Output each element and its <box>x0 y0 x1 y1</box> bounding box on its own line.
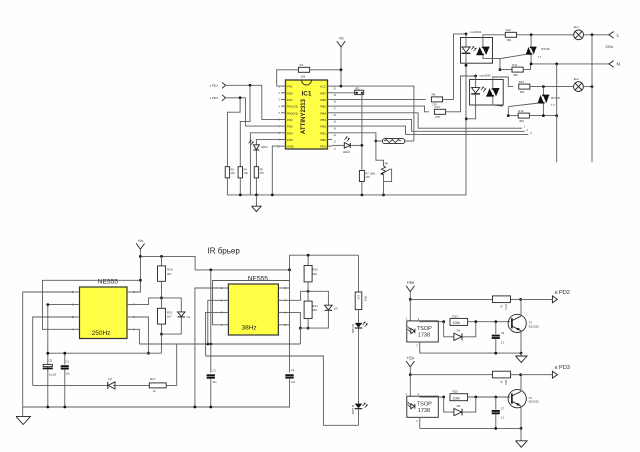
terminal k PD3 input <box>210 95 226 101</box>
svg-text:NE555: NE555 <box>98 278 118 285</box>
wire R to base <box>468 396 510 399</box>
wire emitter to ground <box>520 331 523 355</box>
svg-text:PD1: PD1 <box>287 98 293 102</box>
wire R17 to line <box>166 344 177 385</box>
svg-text:R25: R25 <box>452 390 458 394</box>
ground symbol top section <box>252 195 262 212</box>
wire opto1 pin6 to R12 <box>483 35 505 38</box>
potentiometer R6 <box>381 162 391 182</box>
wire branch to R4 <box>240 85 250 166</box>
lamp EL2 <box>574 77 584 92</box>
+5v column to pin 8 <box>132 249 142 292</box>
capacitor C1 <box>61 353 71 407</box>
resistor R23 100k <box>450 314 468 325</box>
diode D1 <box>162 298 191 334</box>
wire opto1 cathode to ground <box>465 54 468 195</box>
svg-text:1738: 1738 <box>418 408 430 414</box>
wire PB3 bus 2 <box>332 119 529 131</box>
svg-text:BT136: BT136 <box>542 47 551 51</box>
svg-text:220v: 220v <box>606 45 614 49</box>
svg-text:D3: D3 <box>334 306 338 310</box>
wire R15 leads <box>160 298 163 336</box>
svg-text:2N2222: 2N2222 <box>528 400 539 404</box>
frequency control line <box>139 343 300 346</box>
capacitor C4 <box>195 369 296 407</box>
svg-text:IR LED1: IR LED1 <box>351 324 354 334</box>
resistor R15 2k7 <box>158 308 173 324</box>
resistor R9 270 <box>431 93 442 107</box>
wire emitter to ground <box>520 406 523 430</box>
IR receiver TSOP1738 PD3 <box>406 392 439 423</box>
wire R3 R4 R5 to ground rail <box>227 178 256 195</box>
IR receiver TSOP1738 PD2 <box>406 317 439 348</box>
wire +5v to node <box>409 292 412 301</box>
resistor R18 100 <box>355 255 367 309</box>
svg-text:к PD3: к PD3 <box>555 365 570 371</box>
wire opto2 pin6 to R13 <box>493 77 513 87</box>
svg-text:LED2: LED2 <box>343 150 350 154</box>
triac T1 BT136 <box>526 35 550 64</box>
wire GND pin to rail <box>272 146 281 195</box>
svg-text:270: 270 <box>435 115 440 119</box>
svg-text:JP1: JP1 <box>355 86 360 90</box>
wire node to R7 <box>361 145 363 170</box>
svg-text:18: 18 <box>333 100 336 104</box>
svg-text:R6: R6 <box>385 162 389 166</box>
svg-text:360: 360 <box>519 119 524 123</box>
svg-text:PD5: PD5 <box>287 138 293 142</box>
svg-text:C5: C5 <box>49 359 53 363</box>
svg-text:D5: D5 <box>457 404 461 408</box>
wire IR LED2 to return <box>358 409 360 425</box>
IC1 right pin labels <box>320 85 327 149</box>
capacitor C5 1u/25 <box>43 359 57 407</box>
svg-text:100: 100 <box>356 295 360 300</box>
wire pin2 U5 <box>208 300 224 344</box>
wire pin6 U4 <box>132 317 150 355</box>
wire R to base <box>468 320 510 323</box>
resistor R4 10k <box>238 167 248 178</box>
wire node to TSOP pin1 <box>409 299 411 321</box>
svg-text:IR LED2: IR LED2 <box>351 405 354 415</box>
wire branch to R3 <box>227 98 240 167</box>
wire C3 node to +5v jog <box>210 270 212 344</box>
+5v supply PD2 <box>406 280 415 291</box>
wire pin3 U4 output <box>33 317 75 385</box>
wire collector to output node <box>519 373 522 391</box>
wire PA2 to R1 <box>277 70 299 86</box>
svg-text:10k: 10k <box>301 75 306 79</box>
svg-text:2N2222: 2N2222 <box>528 324 539 328</box>
svg-text:PB2: PB2 <box>320 125 326 129</box>
optocoupler U2 MOC3041 <box>461 30 501 63</box>
VCC column U5 <box>283 270 289 373</box>
wire pin1 U4 to ground <box>23 292 75 407</box>
svg-text:470: 470 <box>260 171 265 175</box>
svg-text:2k2: 2k2 <box>312 308 317 312</box>
wire T2 gate <box>493 103 539 117</box>
N line <box>530 63 609 66</box>
svg-text:R14: R14 <box>518 109 524 113</box>
+5v supply PD3 <box>406 356 415 367</box>
svg-text:360: 360 <box>513 73 518 77</box>
wire PB2 bus 3 <box>332 126 532 135</box>
LED IR LED2 <box>351 403 368 415</box>
wire PB5 to R10 <box>332 106 429 112</box>
wire pin5 U4 <box>132 329 139 344</box>
ground symbol bottom left <box>16 407 30 425</box>
wire sensor node to potentiometer <box>376 141 384 166</box>
TSOP pin2 ground rail <box>420 342 521 355</box>
ground symbol PD2 <box>516 353 528 362</box>
wire pin1 U5 to ground <box>195 288 224 407</box>
svg-text:PB6: PB6 <box>320 98 326 102</box>
svg-text:R1: R1 <box>300 63 304 67</box>
lamp EL1 <box>574 25 584 40</box>
svg-text:PD3: PD3 <box>287 125 293 129</box>
svg-text:12: 12 <box>333 140 336 144</box>
wire opto2 cathode join <box>466 94 475 119</box>
svg-text:R3: R3 <box>231 168 235 172</box>
wire R12 to lamp node <box>517 33 574 36</box>
photoresistor R2 <box>376 139 414 144</box>
wire R9 to opto MOC3041 anode <box>443 33 468 100</box>
resistor R5 470 <box>254 167 264 178</box>
ground rail top section <box>227 194 466 197</box>
wire PB6 to R9 <box>332 98 426 100</box>
wire T1 gate <box>499 54 527 71</box>
wire pin4 reset loop U4 <box>43 280 141 329</box>
wire pin7 U4 <box>132 298 162 305</box>
wire +5v to node <box>409 367 412 376</box>
resistor R1 10k <box>298 63 309 79</box>
jumper JP1 <box>332 86 364 94</box>
+5v supply bottom left <box>136 239 144 249</box>
svg-text:R24: R24 <box>504 304 508 310</box>
svg-text:D2: D2 <box>108 377 112 381</box>
svg-text:19: 19 <box>333 93 336 97</box>
triac T2 BT138 <box>538 87 560 116</box>
svg-text:PD4: PD4 <box>287 131 293 135</box>
resistor R24 1k <box>410 296 510 310</box>
wire LED1 to R5 <box>255 150 257 166</box>
svg-text:T 1: T 1 <box>538 55 542 59</box>
svg-text:PA1(X2): PA1(X2) <box>287 105 298 109</box>
wire R1 to +5v rail <box>310 68 343 71</box>
svg-text:NE555: NE555 <box>248 275 268 282</box>
wire terminal PD2 to pin PD2 <box>226 84 282 120</box>
svg-text:100k: 100k <box>453 321 461 325</box>
svg-text:38Hz: 38Hz <box>242 325 257 332</box>
wire TSOP pin3 base row <box>420 320 445 323</box>
IC U4 NE555 250Hz <box>72 278 135 338</box>
wire pin6 U5 <box>283 312 301 329</box>
svg-text:15: 15 <box>333 120 336 124</box>
mains vertical from L <box>591 35 593 163</box>
terminal k PD2 input <box>210 82 226 88</box>
svg-text:moc3041: moc3041 <box>470 30 482 34</box>
optocoupler U3 MOC3042 <box>470 74 504 106</box>
svg-text:к PD2: к PD2 <box>555 290 570 296</box>
output return line U5 <box>206 356 359 425</box>
svg-text:TSOP: TSOP <box>417 402 432 408</box>
svg-text:PD6: PD6 <box>320 145 326 149</box>
wire to terminal PD3 <box>511 374 553 376</box>
wire R10 to opto MOC3042 anode <box>446 75 477 112</box>
IC U5 NE555 38Hz <box>221 275 287 335</box>
wire potentiometer to rail <box>383 175 385 195</box>
wire TSOP pin3 base row <box>420 396 445 399</box>
wire PB4 bus 1 <box>332 113 526 129</box>
wire pin2 U4 to C5 <box>46 303 74 361</box>
LED IR LED1 <box>351 310 368 334</box>
svg-text:360: 360 <box>520 90 525 94</box>
wire pin4 U5 reset loop <box>213 281 290 325</box>
svg-text:EL2: EL2 <box>574 77 579 81</box>
svg-text:C1: C1 <box>66 359 70 363</box>
mains vertical from N <box>556 64 558 162</box>
svg-text:к PD3: к PD3 <box>210 96 219 100</box>
wire VCC to +5v <box>332 85 342 88</box>
svg-text:PD0: PD0 <box>287 91 293 95</box>
transistor T4 2N2222 <box>508 390 539 408</box>
capacitor C6 0.1 <box>492 322 505 353</box>
wire R13 to lamp EL2 node <box>530 85 574 88</box>
terminal PD3 <box>552 365 569 378</box>
resistor R25 100k <box>450 390 468 401</box>
svg-text:R26: R26 <box>504 380 508 386</box>
svg-text:PB3: PB3 <box>320 118 326 122</box>
resistor R3 10k <box>225 167 235 178</box>
svg-text:10n: 10n <box>66 372 71 375</box>
diode D2 <box>33 377 150 389</box>
LED LED1 <box>249 140 269 150</box>
svg-text:+5v: +5v <box>137 239 143 243</box>
svg-text:IC1: IC1 <box>302 91 312 98</box>
svg-text:PD2: PD2 <box>287 118 293 122</box>
svg-text:R18: R18 <box>364 296 368 302</box>
svg-text:17: 17 <box>333 106 336 110</box>
LED LED2 <box>343 137 350 154</box>
wire LED2 to node <box>350 144 363 147</box>
resistor R13 360 <box>519 80 530 94</box>
svg-text:PB7: PB7 <box>320 91 326 95</box>
svg-text:BT138: BT138 <box>551 96 560 100</box>
svg-text:0.1: 0.1 <box>501 417 505 420</box>
wire EL2 to mains vertical <box>583 85 593 88</box>
svg-text:0.1: 0.1 <box>501 341 505 344</box>
svg-text:N: N <box>617 62 621 68</box>
wire R16 to node <box>160 281 163 299</box>
IC1 pin stubs and numbers <box>277 84 337 150</box>
svg-text:16: 16 <box>333 113 336 117</box>
resistor R16 2k7 <box>158 256 173 281</box>
terminal PD2 <box>552 290 569 303</box>
diode D5 <box>444 397 476 416</box>
wire R15 bottom to timing node <box>161 334 163 353</box>
svg-text:100k: 100k <box>453 396 461 400</box>
wire to terminal PD2 <box>511 298 553 300</box>
+5v rail bottom <box>140 254 358 271</box>
svg-text:R13: R13 <box>519 80 525 84</box>
resistor R14 360 <box>508 109 529 123</box>
svg-text:PA2: PA2 <box>287 85 293 89</box>
svg-text:IR брьер: IR брьер <box>208 246 241 255</box>
resistor R22 2k2 <box>304 255 318 291</box>
wire VCC rail to photoresistor <box>341 86 414 141</box>
svg-text:250Hz: 250Hz <box>92 330 111 337</box>
wire R11 to T1 MT1 <box>523 64 530 70</box>
wire pin7 U5 <box>283 290 309 300</box>
svg-text:360: 360 <box>507 38 512 42</box>
bottom ground rail <box>23 406 290 409</box>
svg-text:D1: D1 <box>187 315 191 319</box>
ground symbol PD3 <box>516 428 528 447</box>
svg-text:ATTINY2313: ATTINY2313 <box>300 98 307 134</box>
wire R7 to rail <box>361 182 363 195</box>
svg-text:T 2: T 2 <box>551 103 555 107</box>
IC IC1 ATTINY2313 <box>286 80 328 149</box>
svg-text:R23: R23 <box>452 314 458 318</box>
wire PD5 to LED1 <box>256 139 281 144</box>
IC1 left pin labels <box>287 85 298 149</box>
svg-text:1u/25: 1u/25 <box>49 372 56 376</box>
svg-text:R9: R9 <box>432 93 436 97</box>
resistor R21 2k2 <box>304 291 318 329</box>
svg-text:470: 470 <box>365 175 370 179</box>
svg-text:L: L <box>617 33 620 39</box>
terminal L 220v <box>606 32 620 49</box>
capacitor C3 <box>207 344 217 407</box>
svg-text:R5: R5 <box>260 168 264 172</box>
wire PD4 to ground rail <box>250 133 281 195</box>
wire PB1 to sensor node <box>332 133 377 143</box>
wire terminal PD3 to pin PD3 <box>226 96 282 126</box>
wire IR LED1 to IR LED2 <box>358 328 360 403</box>
svg-text:10k: 10k <box>231 171 236 175</box>
svg-text:PB4: PB4 <box>320 111 326 115</box>
svg-text:R11: R11 <box>512 63 517 67</box>
wire JP1 to LED2 node <box>361 95 363 146</box>
svg-text:R4: R4 <box>244 168 248 172</box>
svg-text:2k7: 2k7 <box>167 272 172 276</box>
svg-text:EL1: EL1 <box>574 25 579 29</box>
svg-text:14: 14 <box>333 126 336 130</box>
svg-text:moc3042: moc3042 <box>479 74 491 78</box>
svg-text:20: 20 <box>333 86 336 90</box>
svg-text:R7 100k: R7 100k <box>365 172 375 176</box>
svg-text:TSOP: TSOP <box>417 326 432 332</box>
capacitor C7 0.1 <box>492 397 505 428</box>
svg-text:PB5: PB5 <box>320 105 326 109</box>
svg-text:2k7: 2k7 <box>167 315 172 319</box>
resistor R17 1k <box>149 377 166 393</box>
svg-text:13: 13 <box>333 133 336 137</box>
timing node wire U4 <box>46 352 161 355</box>
svg-text:10k: 10k <box>244 171 249 175</box>
diode D4 <box>444 322 476 341</box>
svg-text:D4: D4 <box>457 329 461 333</box>
wire node to TSOP pin1 <box>409 375 411 397</box>
svg-text:+5v: +5v <box>407 280 415 285</box>
transistor T3 2N2222 <box>508 314 539 332</box>
svg-text:R12: R12 <box>506 28 512 32</box>
TSOP pin2 ground rail <box>420 417 521 430</box>
svg-text:PB1: PB1 <box>320 131 326 135</box>
svg-text:10n: 10n <box>212 381 217 384</box>
svg-text:2k2: 2k2 <box>312 272 317 276</box>
wire collector to output node <box>519 298 522 316</box>
svg-text:PB0: PB0 <box>320 138 326 142</box>
svg-text:10n: 10n <box>291 381 296 384</box>
svg-text:R10: R10 <box>435 105 441 109</box>
resistor R26 1k <box>410 371 510 385</box>
terminal N <box>609 61 621 68</box>
svg-text:к PD2: к PD2 <box>210 84 219 88</box>
diode D3 <box>300 291 337 328</box>
svg-text:PA0(X1): PA0(X1) <box>287 111 298 115</box>
resistor R11 360 <box>500 63 523 77</box>
wire R14 to T2 MT1 and N line <box>529 114 558 117</box>
wire pin6 node to control line <box>299 328 301 344</box>
wire PD6 to LED2 <box>332 144 344 146</box>
wire EL1 to L terminal <box>584 33 610 36</box>
svg-text:GND: GND <box>287 145 295 149</box>
resistor R10 270 <box>434 105 445 119</box>
svg-text:LED1: LED1 <box>261 145 268 149</box>
svg-text:R17: R17 <box>150 377 156 381</box>
+5v supply top <box>337 37 345 87</box>
wire pin3 U5 output <box>206 312 224 356</box>
svg-text:1k: 1k <box>153 389 157 393</box>
svg-text:+5v: +5v <box>338 37 344 41</box>
svg-text:+5v: +5v <box>407 356 415 361</box>
resistor R7 100k <box>359 171 375 182</box>
resistor R12 360 <box>505 28 516 42</box>
svg-text:VCC: VCC <box>320 85 327 89</box>
svg-text:1738: 1738 <box>418 333 430 339</box>
